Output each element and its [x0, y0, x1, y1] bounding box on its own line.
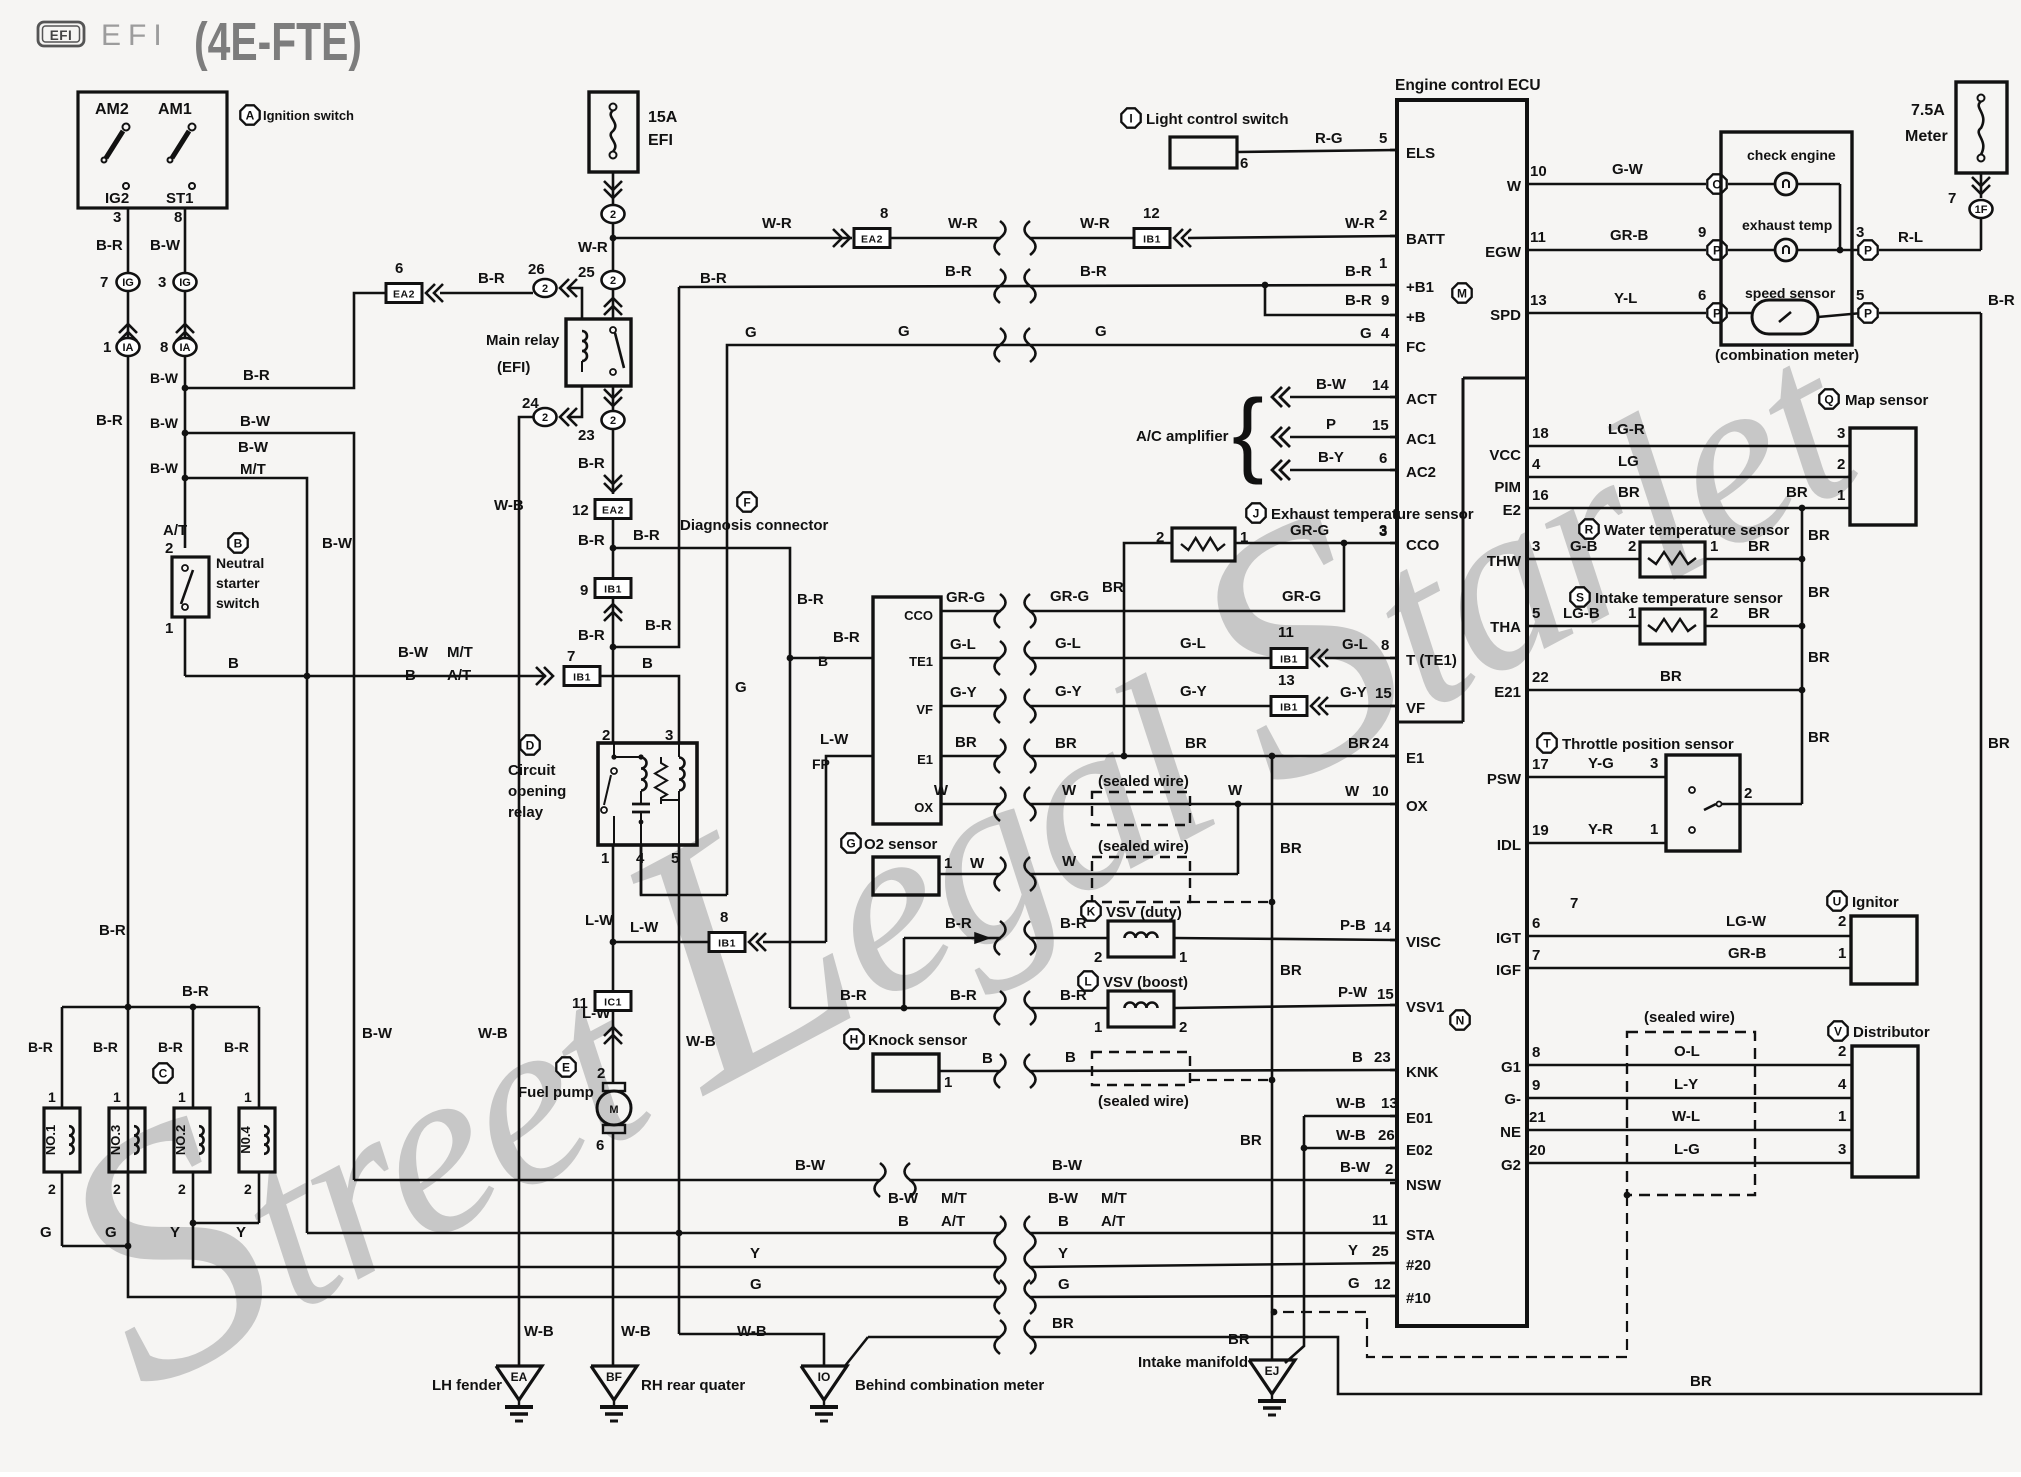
svg-text:NSW: NSW: [1406, 1177, 1442, 1194]
svg-text:E: E: [562, 1060, 570, 1074]
wire BR E2: [1527, 507, 1850, 510]
arrow into EA2 8: [841, 229, 850, 247]
wire W-B BR bottom row: [868, 1336, 1001, 1339]
label C injectors: [153, 1063, 172, 1082]
wire G-Y from diag VF: [941, 705, 1001, 708]
arrow out IB1 8: [749, 933, 758, 951]
svg-text:14: 14: [1374, 919, 1391, 936]
label U Ignitor: [1827, 891, 1846, 910]
node B-W junction y388: [182, 385, 189, 392]
svg-text:2: 2: [597, 1065, 605, 1082]
relay D switch: [613, 743, 615, 757]
wire W from diag OX: [941, 803, 1001, 806]
svg-text:6: 6: [1698, 287, 1706, 304]
svg-text:14: 14: [1372, 377, 1389, 394]
svg-text:2: 2: [178, 1181, 186, 1197]
EFI logo box: [38, 22, 84, 46]
svg-text:#10: #10: [1406, 1290, 1431, 1307]
wire STA from x307: [307, 1232, 1001, 1235]
svg-text:G-Y: G-Y: [1340, 684, 1367, 701]
svg-text:R: R: [1585, 522, 1594, 536]
label F Diagnosis connector: [737, 492, 756, 511]
svg-text:9: 9: [1381, 292, 1389, 309]
wire B to circuit opening relay pin3: [600, 676, 679, 743]
svg-text:5: 5: [1379, 130, 1387, 147]
svg-text:16: 16: [1532, 487, 1549, 504]
svg-text:A: A: [246, 108, 255, 122]
fuse 15A EFI: [589, 92, 638, 172]
wire Y-R IDL: [1527, 842, 1666, 845]
svg-text:Light control switch: Light control switch: [1146, 111, 1289, 128]
svg-text:FC: FC: [1406, 339, 1426, 356]
svg-text:G-Y: G-Y: [1055, 683, 1082, 700]
wire G from ECU FC: [727, 345, 1397, 895]
sealed wire dashed box KNK: [1092, 1052, 1190, 1085]
exhaust temp lamp: [1775, 239, 1797, 261]
svg-text:LG-B: LG-B: [1563, 605, 1600, 622]
svg-text:OX: OX: [1406, 798, 1428, 815]
label H Knock sensor: [844, 1029, 863, 1048]
svg-text:AM2: AM2: [95, 101, 129, 118]
arrow into oval24: [560, 408, 569, 426]
relay D coil right: [678, 743, 680, 757]
svg-text:IGT: IGT: [1496, 930, 1521, 947]
svg-text:Throttle position sensor: Throttle position sensor: [1562, 736, 1734, 753]
svg-text:Y: Y: [1348, 1242, 1358, 1259]
wire B-R to junction y647: [612, 598, 615, 647]
svg-text:1: 1: [1838, 945, 1846, 962]
wire injector outputs: [61, 1172, 64, 1246]
node junction STA x679: [676, 1230, 683, 1237]
svg-text:20: 20: [1529, 1142, 1546, 1159]
svg-text:A/C amplifier: A/C amplifier: [1136, 428, 1229, 445]
svg-text:10: 10: [1372, 783, 1389, 800]
svg-text:VSV (duty): VSV (duty): [1106, 904, 1182, 921]
svg-text:R-G: R-G: [1315, 130, 1343, 147]
svg-text:1: 1: [1838, 1108, 1846, 1125]
relay D capacitor: [632, 803, 650, 806]
svg-text:E1: E1: [1406, 750, 1424, 767]
svg-text:3: 3: [1837, 425, 1845, 442]
svg-text:4: 4: [1381, 325, 1390, 342]
svg-text:2: 2: [542, 412, 548, 424]
wire LG-B THA: [1527, 625, 1640, 628]
svg-text:22: 22: [1532, 669, 1549, 686]
wire LG-W IGT: [1527, 935, 1851, 938]
wire B from knock sensor: [939, 1070, 1001, 1073]
distributor box V: [1852, 1046, 1918, 1177]
svg-text:Y-G: Y-G: [1588, 755, 1614, 772]
svg-text:Ignitor: Ignitor: [1852, 894, 1899, 911]
wire G to ECU #10: [128, 1246, 1001, 1297]
svg-text:G-L: G-L: [1055, 635, 1081, 652]
svg-text:9: 9: [1532, 1077, 1540, 1094]
svg-text:B-R: B-R: [578, 455, 605, 472]
svg-text:6: 6: [1532, 915, 1540, 932]
svg-text:2: 2: [113, 1181, 121, 1197]
svg-text:B-W: B-W: [1048, 1190, 1079, 1207]
svg-text:Y: Y: [750, 1245, 760, 1262]
svg-text:IG2: IG2: [105, 190, 129, 207]
svg-text:2: 2: [1838, 1043, 1846, 1060]
wire B-W M/T down x307: [185, 478, 307, 1233]
svg-text:3: 3: [158, 274, 166, 291]
svg-text:26: 26: [528, 261, 545, 278]
svg-text:1F: 1F: [1975, 204, 1988, 216]
wire fuse down: [612, 172, 615, 319]
arrow up into IC1: [604, 1027, 622, 1036]
svg-text:W: W: [970, 855, 985, 872]
svg-text:VSV1: VSV1: [1406, 999, 1444, 1016]
svg-text:3: 3: [1379, 523, 1387, 540]
wire B-R injector bus: [62, 1006, 259, 1009]
svg-text:(4E-FTE): (4E-FTE): [194, 12, 362, 72]
main relay coil: [582, 331, 587, 361]
svg-text:L-Y: L-Y: [1674, 1076, 1698, 1093]
svg-text:P: P: [1864, 243, 1872, 257]
svg-text:B-W: B-W: [362, 1025, 393, 1042]
svg-text:N0.4: N0.4: [238, 1126, 253, 1154]
svg-text:B-R: B-R: [224, 1039, 249, 1055]
svg-text:ACT: ACT: [1406, 391, 1437, 408]
svg-text:IG: IG: [122, 277, 134, 289]
svg-text:BR: BR: [1185, 735, 1207, 752]
svg-text:W: W: [1062, 782, 1077, 799]
svg-text:EA2: EA2: [861, 234, 883, 246]
svg-text:GR-B: GR-B: [1728, 945, 1766, 962]
svg-text:3: 3: [1650, 755, 1658, 772]
node W-R junction: [610, 235, 617, 242]
svg-text:6: 6: [395, 260, 403, 277]
svg-text:7: 7: [1570, 895, 1578, 912]
svg-text:1: 1: [1094, 1019, 1102, 1036]
svg-text:B: B: [1352, 1049, 1363, 1066]
svg-text:P: P: [1326, 416, 1336, 433]
svg-text:B-W: B-W: [1052, 1157, 1083, 1174]
wire fuse down to 1F: [1980, 173, 1983, 198]
svg-text:7.5A: 7.5A: [1911, 102, 1945, 119]
svg-text:NO.3: NO.3: [108, 1125, 123, 1155]
svg-text:(combination meter): (combination meter): [1715, 347, 1859, 364]
connector P octagon EGW: [1707, 240, 1726, 259]
svg-text:M: M: [1457, 286, 1467, 300]
wire LG-R VCC: [1527, 445, 1850, 448]
svg-text:2: 2: [1179, 1019, 1187, 1036]
svg-text:LG-R: LG-R: [1608, 421, 1645, 438]
svg-text:24: 24: [1372, 735, 1389, 752]
svg-text:B-R: B-R: [633, 527, 660, 544]
svg-text:1: 1: [113, 1089, 121, 1105]
svg-text:G-: G-: [1504, 1091, 1521, 1108]
svg-text:2: 2: [1837, 456, 1845, 473]
label A Ignition switch: [240, 105, 259, 124]
wire B-R VISC branch: [904, 937, 1001, 940]
svg-text:2: 2: [1094, 949, 1102, 966]
ignitor box U: [1851, 916, 1917, 984]
map sensor box Q: [1850, 428, 1916, 525]
svg-text:#20: #20: [1406, 1257, 1431, 1274]
wire BR vertical to intake manifold ground: [1271, 756, 1274, 1360]
svg-text:15: 15: [1375, 685, 1392, 702]
svg-text:H: H: [850, 1032, 859, 1046]
svg-text:12: 12: [572, 502, 589, 519]
svg-text:IGF: IGF: [1496, 962, 1521, 979]
svg-text:Map sensor: Map sensor: [1845, 392, 1929, 409]
svg-text:M/T: M/T: [447, 644, 473, 661]
svg-text:W-R: W-R: [578, 239, 608, 256]
svg-text:7: 7: [1532, 947, 1540, 964]
wire J pin1 GR-G to ECU CCO: [1235, 542, 1397, 545]
light control switch box I: [1170, 137, 1237, 168]
combination meter box: [1721, 132, 1852, 345]
wire B-R +B1 row to ECU: [679, 285, 1397, 287]
wire W-B oval24 left to EA ground line: [519, 417, 534, 1366]
svg-text:B-R: B-R: [99, 922, 126, 939]
svg-text:BR: BR: [1808, 584, 1830, 601]
svg-text:BR: BR: [1280, 840, 1302, 857]
svg-text:1: 1: [944, 1074, 952, 1091]
svg-text:EGW: EGW: [1485, 244, 1522, 261]
svg-text:LH fender: LH fender: [432, 1377, 502, 1394]
svg-text:EA2: EA2: [393, 289, 415, 301]
svg-text:23: 23: [1374, 1049, 1391, 1066]
harness break W-R: [995, 221, 1006, 255]
wire lamp to internal bus: [1797, 183, 1840, 186]
injector NO.4: [239, 1108, 275, 1172]
svg-text:7: 7: [567, 648, 575, 665]
connector O octagon: [1707, 174, 1726, 193]
svg-text:W-B: W-B: [1336, 1127, 1366, 1144]
wire B-R to diag B: [793, 657, 873, 660]
svg-text:B-R: B-R: [1345, 292, 1372, 309]
wire G bus injectors 1-3: [62, 1245, 128, 1248]
svg-text:E02: E02: [1406, 1142, 1433, 1159]
wire G-L to ECU TE1: [1325, 657, 1397, 660]
wire B-R VSV1 row: [790, 1007, 1001, 1010]
svg-text:G: G: [105, 1224, 117, 1241]
svg-text:3: 3: [1838, 1141, 1846, 1158]
speed sensor symbol: [1752, 300, 1818, 334]
svg-text:CCO: CCO: [904, 608, 933, 623]
svg-text:Fuel pump: Fuel pump: [518, 1084, 594, 1101]
wire B-W ACT: [1290, 396, 1397, 399]
label Q Map sensor: [1819, 389, 1838, 408]
neutral starter switch box B: [172, 557, 209, 617]
svg-text:18: 18: [1532, 425, 1549, 442]
svg-text:B: B: [818, 653, 828, 669]
wire B-R x613 to IB1 9: [612, 548, 615, 578]
connector P octagon meter right bottom: [1858, 303, 1877, 322]
svg-text:G-L: G-L: [950, 636, 976, 653]
svg-text:BATT: BATT: [1406, 231, 1445, 248]
svg-text:IB1: IB1: [1143, 234, 1161, 246]
svg-text:W-B: W-B: [737, 1323, 767, 1340]
wire P-W to ECU VSV1: [1174, 1005, 1397, 1008]
svg-text:VSV (boost): VSV (boost): [1103, 974, 1188, 991]
label J Exhaust temperature sensor: [1246, 503, 1265, 522]
svg-text:2: 2: [542, 283, 548, 295]
svg-text:AC2: AC2: [1406, 464, 1436, 481]
wire B-Y AC2: [1290, 469, 1397, 472]
arrow up to IG st1: [176, 324, 194, 333]
svg-text:B-R: B-R: [28, 1039, 53, 1055]
wire L-W down to IC1: [612, 942, 615, 991]
wire G-Y to ECU VF: [1325, 705, 1397, 708]
svg-text:11: 11: [1530, 229, 1546, 246]
wire GR-B IGF: [1527, 967, 1851, 970]
svg-text:Diagnosis connector: Diagnosis connector: [680, 517, 829, 534]
svg-text:SPD: SPD: [1490, 307, 1521, 324]
svg-text:21: 21: [1529, 1109, 1546, 1126]
svg-text:BR: BR: [1748, 605, 1770, 622]
svg-text:BR: BR: [1228, 1331, 1250, 1348]
wire BR THA to bus: [1705, 625, 1802, 628]
svg-text:B-W: B-W: [322, 535, 353, 552]
svg-text:BR: BR: [1808, 649, 1830, 666]
svg-text:4: 4: [1838, 1076, 1847, 1093]
relay D coil left: [638, 754, 643, 759]
svg-text:G: G: [898, 323, 910, 340]
svg-text:17: 17: [1532, 756, 1549, 773]
svg-text:B: B: [405, 667, 416, 684]
svg-text:L-W: L-W: [820, 731, 849, 748]
fuel pump motor: [603, 1083, 625, 1091]
svg-text:19: 19: [1532, 822, 1549, 839]
svg-text:L: L: [1084, 974, 1091, 988]
svg-text:M/T: M/T: [941, 1190, 967, 1207]
wire P-B to ECU VISC: [1174, 938, 1397, 940]
sealed wire shield link to BR ground: [1624, 1192, 1631, 1199]
svg-text:5: 5: [1532, 605, 1540, 622]
svg-text:switch: switch: [216, 595, 260, 611]
svg-text:C: C: [159, 1066, 168, 1080]
svg-text:IG: IG: [179, 277, 191, 289]
svg-text:GR-G: GR-G: [946, 589, 985, 606]
ground BF RH rear quarter: [591, 1366, 637, 1400]
svg-text:{: {: [1232, 380, 1264, 486]
svg-text:RH rear quater: RH rear quater: [641, 1377, 745, 1394]
svg-text:IC1: IC1: [604, 997, 622, 1009]
svg-text:B-Y: B-Y: [1318, 449, 1344, 466]
svg-text:W-R: W-R: [1345, 215, 1375, 232]
injector NO.2: [174, 1108, 210, 1172]
svg-text:W-B: W-B: [1336, 1095, 1366, 1112]
ignition switch lever AM1: [189, 124, 196, 131]
svg-text:6: 6: [1240, 155, 1248, 172]
svg-text:G1: G1: [1501, 1059, 1521, 1076]
svg-text:P-W: P-W: [1338, 984, 1368, 1001]
svg-text:GR-G: GR-G: [1290, 522, 1329, 539]
knock sensor box H: [873, 1054, 939, 1091]
svg-text:12: 12: [1374, 1276, 1391, 1293]
svg-text:9: 9: [1698, 224, 1706, 241]
svg-text:B-W: B-W: [238, 439, 269, 456]
wire W-R to ECU BATT: [1188, 236, 1397, 238]
svg-text:B: B: [228, 655, 239, 672]
svg-text:W-B: W-B: [621, 1323, 651, 1340]
arrow out IB1 12: [1174, 229, 1183, 247]
wire B-W down x354 to NSW: [185, 433, 354, 1180]
svg-text:VISC: VISC: [1406, 934, 1441, 951]
svg-text:E2: E2: [1503, 502, 1521, 519]
svg-text:G-W: G-W: [1612, 161, 1644, 178]
svg-text:B-R: B-R: [950, 987, 977, 1004]
svg-text:relay: relay: [508, 804, 544, 821]
arrow out IB1 13: [1311, 697, 1320, 715]
svg-text:Y: Y: [170, 1224, 180, 1241]
svg-text:8: 8: [160, 339, 168, 356]
svg-text:IDL: IDL: [1497, 837, 1521, 854]
wire B-R to VSV boost: [1029, 1007, 1108, 1010]
svg-text:G-Y: G-Y: [1180, 683, 1207, 700]
wire relay pin5 down to STA and IO ground: [678, 845, 681, 1334]
svg-text:CCO: CCO: [1406, 537, 1440, 554]
svg-text:Water temperature sensor: Water temperature sensor: [1604, 522, 1790, 539]
ground IO behind combination meter: [801, 1366, 847, 1400]
wire B-R to VSV duty: [1029, 937, 1108, 940]
svg-text:Q: Q: [1824, 392, 1833, 406]
svg-text:G: G: [1095, 323, 1107, 340]
wire diagonal to IO ground: [845, 1337, 868, 1366]
svg-text:A/T: A/T: [941, 1213, 965, 1230]
arrow up into oval25: [604, 298, 622, 307]
TPS internals: [1689, 787, 1695, 793]
connector oval 2 below fuse: [602, 205, 625, 223]
wire BR sensor ground bus: [1801, 508, 1804, 804]
label E Fuel pump: [556, 1057, 575, 1076]
svg-text:J: J: [1253, 506, 1260, 520]
label V Distributor: [1828, 1021, 1847, 1040]
svg-text:BR: BR: [1240, 1132, 1262, 1149]
svg-text:B-R: B-R: [945, 915, 972, 932]
arrow down to oval23: [604, 397, 622, 406]
svg-text:BR: BR: [1748, 538, 1770, 555]
svg-text:W-L: W-L: [1672, 1108, 1700, 1125]
svg-text:2: 2: [1838, 913, 1846, 930]
svg-text:5: 5: [1856, 287, 1864, 304]
svg-text:EA2: EA2: [602, 505, 624, 517]
svg-text:W-R: W-R: [762, 215, 792, 232]
wire G-L from diag TE1: [941, 657, 1001, 660]
svg-text:E01: E01: [1406, 1110, 1433, 1127]
arrow out EA2 6: [426, 284, 435, 302]
svg-text:EA: EA: [511, 1370, 528, 1384]
svg-text:W: W: [1345, 783, 1360, 800]
svg-text:13: 13: [1530, 292, 1547, 309]
svg-text:W-B: W-B: [686, 1033, 716, 1050]
svg-text:B: B: [1065, 1049, 1076, 1066]
wire G to relay pin4: [641, 845, 727, 895]
svg-text:A/T: A/T: [447, 667, 471, 684]
wire B-R to junction y548: [612, 518, 615, 548]
svg-text:BR: BR: [1808, 527, 1830, 544]
svg-text:opening: opening: [508, 783, 566, 800]
wire W from O2 sensor: [939, 873, 1001, 876]
svg-text:check engine: check engine: [1747, 147, 1836, 163]
wire G-B THW: [1527, 558, 1640, 561]
svg-text:+B1: +B1: [1406, 279, 1434, 296]
wire BR E21: [1527, 689, 1802, 692]
wire W up to OX: [1237, 804, 1240, 874]
label D Circuit opening relay: [520, 735, 539, 754]
svg-text:8: 8: [880, 205, 888, 222]
svg-text:2: 2: [610, 209, 616, 221]
ignition switch pin IG2: [123, 183, 129, 189]
svg-text:B-R: B-R: [96, 412, 123, 429]
svg-text:P-B: P-B: [1340, 917, 1366, 934]
svg-text:B-R: B-R: [478, 270, 505, 287]
svg-text:G: G: [1058, 1276, 1070, 1293]
